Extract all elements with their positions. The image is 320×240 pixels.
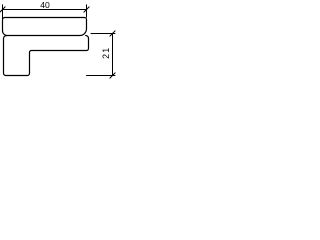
svg-text:40: 40: [40, 0, 50, 10]
profile outline: top bar: [3, 18, 87, 36]
dimension 40: dim line: [3, 9, 87, 11]
profile outline: lower-left fillet from web to left wall: [4, 36, 7, 39]
dimension 21: extension lines: [91, 33, 115, 35]
profile outline: right lip, web top, column, bottom: [4, 36, 89, 76]
dimension 40: extension lines: [2, 5, 4, 20]
svg-text:21: 21: [101, 47, 111, 59]
dimension 21: oblique ticks: [110, 31, 115, 36]
dimension 40: oblique ticks: [0, 7, 5, 12]
dimension 21: dim line: [112, 34, 114, 76]
